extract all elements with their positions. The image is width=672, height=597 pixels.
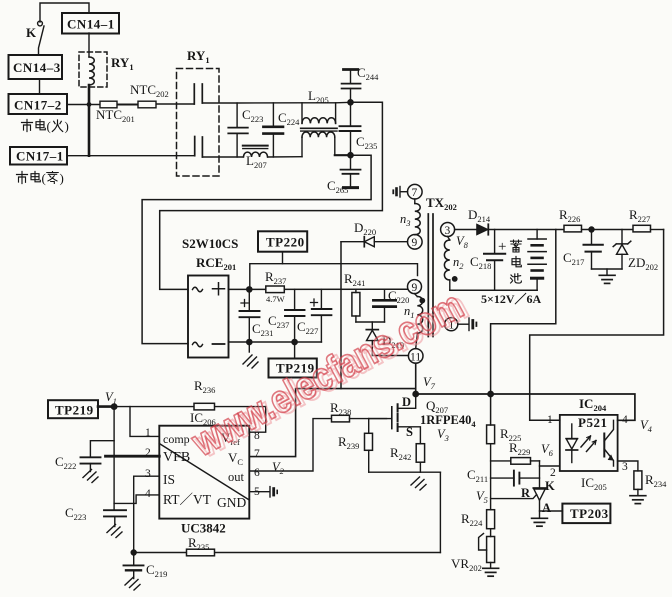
ground C219 [125, 577, 140, 590]
svg-text:RY1: RY1 [187, 48, 210, 65]
wire pin2 IC204 [540, 465, 560, 467]
connector CN17-2 [9, 94, 68, 114]
ground C217 ZD202 [592, 269, 623, 283]
svg-text:D214: D214 [468, 207, 491, 224]
wire pin6 out to gate drive [249, 419, 331, 471]
svg-text:3: 3 [145, 468, 151, 480]
svg-text:C218: C218 [470, 254, 491, 271]
svg-text:R227: R227 [629, 207, 650, 224]
capacitor C237 [285, 289, 305, 342]
wire V7 rail to IC204 pin4 [416, 394, 635, 420]
wire A to TP203 [540, 510, 563, 512]
wire contact to EMI bottom line [202, 156, 242, 158]
svg-text:R239: R239 [338, 434, 359, 451]
chassis ground pin1 [458, 318, 477, 331]
transformer pin 3 circle [441, 223, 455, 237]
svg-text:R226: R226 [559, 207, 580, 224]
svg-text:C235: C235 [356, 134, 377, 151]
clamp diode D219 [366, 322, 408, 356]
node rail C237 [292, 339, 297, 344]
svg-text:S: S [406, 425, 413, 439]
svg-text:IS: IS [163, 472, 175, 487]
label 蓄电池 battery text [511, 240, 522, 283]
svg-text:7: 7 [254, 448, 260, 460]
svg-text:TP203: TP203 [570, 506, 609, 521]
wire switch K to CN14-1 top loop [40, 3, 89, 22]
svg-text:TX202: TX202 [426, 195, 457, 212]
svg-text:C223: C223 [242, 107, 263, 124]
svg-text:VFB: VFB [163, 450, 190, 465]
test point TP203 [562, 504, 610, 523]
label 市电(零) [17, 171, 64, 186]
wire lower node to bridge bottom (outer loop) [142, 155, 371, 343]
svg-text:R241: R241 [344, 271, 365, 288]
test point TP219 left [48, 400, 114, 418]
svg-text:C211: C211 [467, 467, 488, 484]
svg-text:V3: V3 [437, 427, 449, 443]
resistor R224 [487, 510, 495, 537]
transformer core [428, 214, 433, 337]
svg-text:CN17–1: CN17–1 [16, 149, 64, 164]
svg-text:V6: V6 [541, 442, 554, 458]
wire V1 vertical [113, 407, 115, 511]
chassis ground pin7 [393, 187, 407, 198]
capacitor C217 [584, 230, 603, 270]
wire IS sense line [134, 552, 441, 554]
resistor R236 [194, 403, 215, 410]
svg-text:3: 3 [622, 461, 628, 473]
svg-text:CN14–3: CN14–3 [13, 60, 61, 75]
mosfet Q207 source lead [398, 427, 421, 444]
svg-text:9: 9 [412, 237, 418, 249]
resistor R235 [187, 549, 215, 556]
relay RY1 contact box (dashed) [177, 69, 220, 177]
wire R227 to IC204 pin1 [530, 230, 664, 421]
svg-text:L205: L205 [308, 88, 329, 105]
svg-text:2: 2 [145, 447, 151, 459]
svg-text:RY1: RY1 [111, 55, 134, 72]
connector CN14-3 [9, 55, 63, 79]
wire D220 to Vc line [340, 242, 342, 389]
capacitor C235 [340, 102, 361, 155]
svg-text:1: 1 [145, 427, 151, 439]
svg-text:4: 4 [622, 414, 628, 426]
switch K [38, 21, 44, 55]
capacitor C227 polarized [311, 289, 332, 342]
transformer pin 9 lower circle [408, 280, 422, 294]
ground shunt A [532, 518, 548, 526]
ground VR202 [483, 568, 499, 576]
shunt regulator K-R-A [491, 488, 546, 518]
watermark www.elecfans.com [184, 281, 475, 468]
svg-text:VR202: VR202 [451, 556, 482, 573]
svg-text:V8: V8 [456, 234, 469, 250]
svg-text:R238: R238 [330, 400, 351, 417]
node V1 [111, 404, 116, 409]
svg-text:C227: C227 [297, 319, 318, 336]
resistor R237 [266, 286, 285, 293]
phase dot n2 [453, 277, 457, 281]
svg-text:R234: R234 [645, 472, 667, 489]
capacitor C223 [228, 103, 248, 157]
phase dot n1 [420, 298, 424, 302]
wire battery+ to V7 and feedback divider [491, 230, 556, 426]
mosfet Q207 1RFPE40 drain lead [398, 394, 416, 408]
connector CN17-1 [10, 147, 67, 165]
relay contact lower [195, 137, 203, 158]
resistor R226 [564, 225, 633, 232]
svg-text:GND: GND [217, 495, 246, 510]
wire RY1 coil to mains junction (bold) [88, 85, 91, 156]
capacitor C219 [124, 553, 144, 579]
svg-text:n3: n3 [400, 212, 411, 228]
svg-text:ZD202: ZD202 [628, 255, 658, 272]
node C217 [589, 227, 594, 232]
diode D220 [341, 237, 408, 247]
node junction lower [348, 153, 353, 158]
wire L205 to node junction (bold) [335, 154, 351, 156]
capacitor C224 [263, 103, 283, 157]
winding n3 [415, 199, 420, 235]
svg-text:V4: V4 [640, 418, 653, 434]
bridge rectifier RCE201 S2W10CS [188, 276, 229, 358]
svg-text:+: + [498, 239, 506, 255]
ground C223 [107, 525, 122, 538]
svg-text:V1: V1 [105, 390, 117, 406]
wire CN17-2 to NTC201 [67, 104, 100, 106]
svg-text:out: out [228, 470, 245, 484]
svg-text:RT／VT: RT／VT [163, 492, 212, 507]
snubber resistor R241 [352, 289, 360, 322]
capacitor C231 polarized [240, 289, 260, 342]
wire pin5 chassis [249, 487, 277, 497]
svg-text:R236: R236 [194, 378, 215, 395]
wire pin11 to V7 node [415, 363, 417, 394]
chassis ground rail [243, 342, 258, 368]
potentiometer VR202 [479, 534, 495, 569]
svg-text:CN17–2: CN17–2 [14, 98, 62, 113]
svg-text:C217: C217 [563, 250, 584, 267]
wire CN17-1 to relay contact [67, 155, 195, 157]
wire V6 node vertical [539, 461, 541, 488]
optocoupler transistor [604, 420, 613, 466]
svg-text:C224: C224 [278, 110, 300, 127]
svg-text:D: D [402, 395, 411, 409]
wire filter ground rail [229, 341, 322, 343]
svg-text:7: 7 [412, 187, 418, 199]
capacitor C244 [342, 70, 361, 103]
svg-text:1RFPE404: 1RFPE404 [420, 413, 476, 429]
resistor R242 [416, 444, 424, 473]
resistor R229 [491, 458, 540, 465]
wire contact to EMI top line [202, 101, 350, 104]
svg-text:D220: D220 [354, 220, 376, 237]
svg-text:4.7W: 4.7W [266, 294, 285, 304]
inductor L207 [243, 146, 302, 157]
ground C222 [83, 470, 98, 483]
svg-text:R224: R224 [461, 511, 483, 528]
svg-text:2: 2 [550, 467, 556, 479]
svg-text:TP219: TP219 [55, 403, 94, 418]
resistor R227 [633, 225, 664, 232]
wire pin4 RT/VT [114, 495, 159, 504]
svg-text:C223: C223 [65, 505, 86, 522]
svg-text:A: A [542, 501, 551, 515]
svg-text:R242: R242 [390, 445, 411, 462]
wire upper node to bridge top (outer loop) [160, 102, 383, 289]
resistor R234 [634, 471, 642, 496]
wire pin3 IS to sense [134, 476, 160, 552]
svg-text:R237: R237 [265, 269, 286, 286]
winding n2 [444, 237, 449, 291]
svg-text:C219: C219 [146, 562, 167, 579]
svg-text:V2: V2 [272, 460, 285, 476]
wire CN14-3 to CN17-2 [39, 79, 41, 94]
wire source rail [369, 471, 441, 473]
snubber capacitor C220 [356, 289, 396, 322]
diode D214 [455, 224, 564, 234]
svg-text:R: R [521, 486, 531, 500]
relay coil RY1 [79, 33, 107, 87]
svg-text:IC205: IC205 [581, 475, 607, 492]
svg-text:6: 6 [254, 467, 260, 479]
wire V1 rail [114, 406, 266, 408]
svg-text:UC3842: UC3842 [181, 521, 226, 536]
svg-text:(: ( [47, 119, 51, 134]
wire secondary return [450, 289, 537, 291]
svg-text:5×12V／6A: 5×12V／6A [481, 291, 542, 306]
node IS C219 [131, 550, 136, 555]
svg-text:5: 5 [254, 486, 260, 498]
thermistor NTC201 [100, 101, 138, 108]
winding n1 [415, 294, 423, 349]
svg-text:1: 1 [547, 414, 553, 426]
optocoupler IC204 P521 box [560, 415, 618, 471]
svg-text:C265: C265 [327, 178, 348, 195]
mosfet Q207 channel and gate [369, 404, 398, 431]
wire Vref pin8 [249, 407, 265, 433]
wire bridge + output rail to pin9 [229, 288, 408, 290]
resistor R238 [332, 415, 387, 422]
test point TP219 [269, 342, 317, 378]
transformer pin 11 circle [408, 349, 423, 364]
svg-text:9: 9 [412, 282, 418, 294]
svg-text:C220: C220 [388, 288, 409, 305]
svg-text:TP220: TP220 [266, 235, 305, 250]
svg-text:S2W10CS: S2W10CS [182, 236, 238, 251]
svg-text:NTC201: NTC201 [96, 107, 135, 124]
wire TP220 tap line to pin9 top [250, 264, 418, 290]
svg-text:V5: V5 [476, 489, 488, 505]
capacitor C265 [341, 155, 361, 187]
node bridge + junction [247, 287, 252, 292]
capacitor C223 lower [104, 510, 126, 526]
thermistor NTC202 [138, 101, 194, 108]
svg-text:comp: comp [163, 432, 190, 446]
wire pin2 VFB stub (bold) [106, 455, 160, 458]
capacitor C222 [81, 441, 115, 472]
svg-text:K: K [26, 25, 37, 40]
node divider V7 [488, 391, 493, 396]
wire pin1 comp [130, 407, 159, 437]
svg-text:CN14–1: CN14–1 [67, 17, 115, 32]
optocoupler arrows [581, 436, 596, 452]
svg-text:): ) [65, 119, 69, 134]
svg-text:C222: C222 [55, 454, 76, 471]
svg-text:R235: R235 [188, 535, 209, 552]
transformer TX202 pin 7 circle [408, 184, 423, 199]
connector CN14-1 [62, 13, 119, 34]
test point TP220 [258, 231, 307, 263]
label 市电(火) [22, 119, 69, 134]
svg-text:L207: L207 [246, 153, 267, 170]
optocoupler LED [566, 424, 578, 463]
svg-text:IC204: IC204 [579, 396, 607, 413]
svg-text:): ) [60, 171, 64, 186]
node mains junction [87, 102, 92, 107]
svg-text:n2: n2 [453, 255, 464, 271]
ic UC3842 IC206 [159, 426, 249, 519]
transformer pin 1 circle [445, 318, 458, 331]
wire sense to R235 line [439, 472, 441, 552]
svg-text:P521: P521 [578, 415, 607, 430]
battery 蓄电池 [528, 230, 546, 291]
resistor R239 [365, 419, 373, 473]
svg-text:4: 4 [145, 488, 151, 500]
capacitor C218 [484, 230, 505, 291]
ground source [411, 477, 426, 490]
svg-text:NTC202: NTC202 [130, 82, 169, 99]
node junction upper [348, 100, 353, 105]
node V7 [413, 391, 418, 396]
resistor R225 [487, 425, 495, 510]
capacitor C211 [491, 471, 540, 486]
wire Vc supply line [249, 389, 415, 457]
relay contact upper [194, 84, 202, 104]
svg-text:C244: C244 [357, 65, 379, 82]
transformer pin 9 upper circle [408, 235, 423, 250]
svg-text:K: K [545, 479, 555, 493]
svg-text:3: 3 [445, 225, 451, 237]
svg-text:RCE201: RCE201 [196, 255, 236, 272]
common-mode choke L205 [301, 103, 337, 157]
node rail C231 [247, 339, 252, 344]
ground R234 [630, 496, 646, 504]
svg-text:(: ( [42, 171, 46, 186]
wire pin3 to R234 [618, 461, 638, 471]
svg-text:V7: V7 [423, 375, 436, 391]
zener diode ZD202 [613, 230, 631, 270]
